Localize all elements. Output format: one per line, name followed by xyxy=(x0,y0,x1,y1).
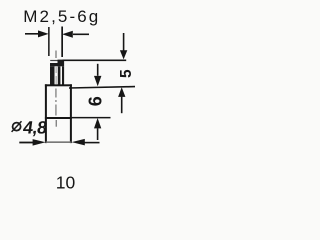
svg-text:4,8: 4,8 xyxy=(22,118,49,138)
svg-text:6: 6 xyxy=(86,96,106,106)
svg-text:M2,5-6g: M2,5-6g xyxy=(23,7,100,26)
svg-text:10: 10 xyxy=(56,173,76,193)
svg-text:5: 5 xyxy=(118,69,135,78)
